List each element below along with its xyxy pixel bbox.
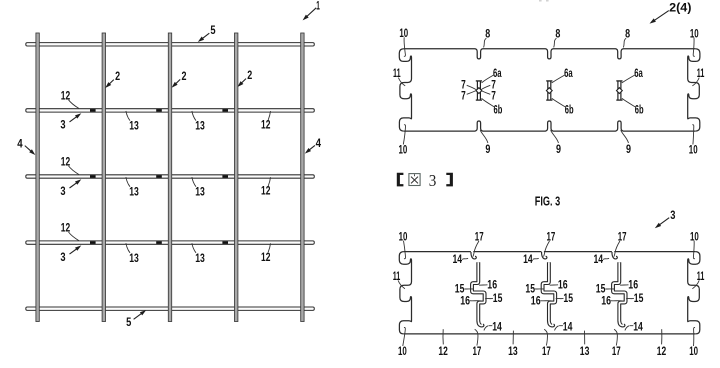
leader 7 ur bbox=[481, 85, 490, 89]
cut feature cap 6a bbox=[476, 80, 482, 82]
leader 16 left bbox=[470, 300, 481, 302]
weld 3 bbox=[222, 109, 228, 112]
svg-text:16: 16 bbox=[628, 280, 638, 292]
leader 8 bbox=[554, 38, 557, 47]
leader 6b bbox=[622, 98, 635, 107]
svg-text:15: 15 bbox=[634, 293, 644, 305]
svg-text:FIG. 3: FIG. 3 bbox=[535, 194, 560, 208]
svg-text:9: 9 bbox=[556, 144, 561, 156]
leader f3 13 a bbox=[512, 331, 514, 345]
leader 14 bottom bbox=[484, 326, 492, 331]
leader 16 right bbox=[479, 284, 487, 286]
svg-text:6a: 6a bbox=[493, 68, 502, 80]
svg-text:3: 3 bbox=[60, 186, 65, 198]
svg-text:4: 4 bbox=[316, 138, 322, 150]
svg-text:13: 13 bbox=[195, 121, 205, 133]
arrow to 5 top bbox=[200, 33, 209, 40]
bar vertical 2-1 bbox=[36, 33, 39, 322]
leader 13 a bbox=[126, 177, 130, 187]
svg-text:6a: 6a bbox=[634, 68, 643, 80]
cut feature slit bbox=[477, 81, 481, 100]
bar vertical 2-3 bbox=[168, 33, 171, 322]
cut feature cap 6b bbox=[546, 99, 552, 101]
JP heading bracket right bbox=[446, 173, 453, 187]
leader f3 10 TL bbox=[404, 241, 406, 259]
cut feature slit bbox=[617, 81, 621, 100]
cut feature slit bbox=[547, 81, 551, 100]
leader 6a bbox=[552, 75, 565, 83]
svg-text:12: 12 bbox=[261, 120, 270, 132]
plate 2 left edge with hooks 10 and notch 11 bbox=[399, 49, 411, 131]
svg-text:15: 15 bbox=[493, 293, 503, 305]
svg-text:11: 11 bbox=[697, 271, 705, 283]
svg-text:12: 12 bbox=[438, 346, 447, 358]
wire horizontal 5-1 bbox=[26, 43, 315, 46]
leader 14 bottom bbox=[555, 326, 563, 331]
weld 3 bbox=[156, 241, 162, 244]
svg-text:15: 15 bbox=[563, 293, 573, 305]
weld 3 bbox=[90, 175, 96, 178]
seam bottom hook 14 bbox=[618, 321, 625, 327]
leader 8 bbox=[623, 38, 626, 47]
leader 16 left bbox=[540, 300, 551, 302]
svg-text:16: 16 bbox=[487, 280, 497, 292]
cut feature cap 6a bbox=[616, 80, 622, 82]
svg-text:3: 3 bbox=[670, 210, 675, 222]
weld 3 bbox=[90, 109, 96, 112]
weld 3 bbox=[156, 109, 162, 112]
leader 13 b bbox=[192, 243, 196, 253]
leader 15 left bbox=[605, 288, 614, 290]
weld 3 bbox=[156, 175, 162, 178]
arrow to 2 bbox=[239, 79, 246, 86]
leader f3 11 right bbox=[692, 280, 699, 288]
svg-text:17: 17 bbox=[612, 346, 621, 358]
leader 15 right bbox=[485, 297, 493, 300]
plate 3 top edge bbox=[404, 251, 695, 253]
plate 3 bottom edge bbox=[404, 333, 695, 335]
leader 12 right bbox=[268, 111, 270, 120]
leader 16 right bbox=[620, 284, 628, 286]
plate 2 right edge with hooks 10 and notch 11 bbox=[688, 49, 700, 131]
svg-text:14: 14 bbox=[563, 321, 573, 333]
leader 14 top bbox=[603, 258, 609, 259]
svg-text:14: 14 bbox=[453, 254, 463, 266]
svg-text:2(4): 2(4) bbox=[669, 2, 692, 14]
svg-text:3: 3 bbox=[429, 171, 437, 190]
plate 3 left edge with hooks 10 and notch 11 bbox=[399, 252, 411, 334]
svg-text:15: 15 bbox=[596, 283, 606, 295]
svg-text:11: 11 bbox=[393, 271, 401, 283]
leader 16 right bbox=[550, 284, 558, 286]
svg-text:15: 15 bbox=[525, 283, 535, 295]
cut feature cap 6b bbox=[476, 99, 482, 101]
leader 17 bottom bbox=[544, 329, 547, 345]
svg-text:17: 17 bbox=[542, 346, 551, 358]
svg-text:11: 11 bbox=[697, 68, 705, 80]
svg-text:14: 14 bbox=[633, 321, 643, 333]
leader 6a bbox=[482, 75, 494, 83]
svg-text:13: 13 bbox=[129, 121, 139, 133]
svg-text:13: 13 bbox=[508, 346, 518, 358]
arrow to 5 bottom bbox=[134, 312, 144, 320]
svg-text:17: 17 bbox=[618, 231, 627, 243]
cut feature diamond opening bbox=[617, 88, 623, 94]
svg-text:10: 10 bbox=[398, 346, 407, 358]
leader 10 BR bbox=[692, 125, 694, 145]
leader 13 b bbox=[192, 111, 196, 121]
wire horizontal 5-4 bbox=[26, 241, 315, 244]
leader 9 bbox=[551, 130, 559, 143]
seam top hook 17 bbox=[542, 252, 547, 259]
svg-text:13: 13 bbox=[580, 346, 590, 358]
wire horizontal 5-2 bbox=[26, 109, 315, 112]
cut-off heading remnant bbox=[539, 0, 542, 2]
svg-text:9: 9 bbox=[485, 144, 490, 156]
svg-text:6b: 6b bbox=[565, 105, 574, 117]
arrow to 3 bbox=[70, 247, 80, 254]
svg-text:3: 3 bbox=[60, 252, 65, 264]
leader 7 lr bbox=[481, 91, 490, 95]
svg-text:7: 7 bbox=[491, 90, 496, 102]
leader 10 TR bbox=[693, 38, 695, 57]
JP heading bracket left bbox=[397, 173, 404, 187]
arrow to 2 bbox=[107, 80, 114, 87]
leader 17 bottom bbox=[614, 329, 617, 345]
svg-text:10: 10 bbox=[689, 346, 698, 358]
leader 14 top bbox=[533, 258, 539, 259]
leader 15 left bbox=[464, 288, 473, 290]
leader 17 top bbox=[544, 241, 550, 257]
svg-text:4: 4 bbox=[17, 139, 23, 151]
arrow to 2 bbox=[173, 79, 180, 86]
leader 14 bottom bbox=[625, 326, 633, 331]
plate 3 right edge with hooks 10 and notch 11 bbox=[688, 252, 700, 334]
arrow to 2(4) bbox=[653, 11, 669, 22]
leader 11 right bbox=[692, 78, 699, 86]
cut feature diamond opening bbox=[476, 88, 482, 94]
svg-text:16: 16 bbox=[558, 280, 568, 292]
svg-text:13: 13 bbox=[129, 187, 139, 199]
svg-text:5: 5 bbox=[126, 317, 132, 329]
leader f3 12 BL bbox=[442, 329, 444, 344]
arrow to 3 bbox=[657, 218, 669, 227]
svg-text:6b: 6b bbox=[635, 105, 644, 117]
svg-text:14: 14 bbox=[523, 254, 533, 266]
svg-text:13: 13 bbox=[129, 253, 139, 265]
svg-text:10: 10 bbox=[399, 231, 408, 243]
svg-text:3: 3 bbox=[60, 120, 65, 132]
leader 11 left bbox=[398, 78, 405, 86]
svg-text:14: 14 bbox=[492, 321, 502, 333]
leader 7 ul bbox=[467, 85, 477, 89]
seam bottom hook 14 bbox=[548, 321, 555, 327]
leader 10 TL bbox=[404, 37, 406, 56]
leader 15 right bbox=[556, 297, 564, 300]
seam top hook 17 bbox=[612, 252, 617, 259]
leader 7 ll bbox=[467, 91, 477, 95]
arrow to 4 right bbox=[307, 145, 315, 152]
leader 17 top bbox=[614, 241, 620, 257]
arrow to 3 bbox=[70, 181, 80, 188]
svg-text:1: 1 bbox=[316, 0, 320, 12]
JP heading kanji ZU (figure) bbox=[409, 174, 420, 186]
svg-text:6a: 6a bbox=[564, 68, 573, 80]
svg-text:9: 9 bbox=[626, 144, 631, 156]
bar vertical 2-5 bbox=[301, 33, 304, 322]
weld 3 bbox=[222, 175, 228, 178]
svg-text:11: 11 bbox=[393, 68, 401, 80]
leader 10 BL bbox=[403, 125, 405, 145]
weld 3 bbox=[222, 241, 228, 244]
cut feature cap 6a bbox=[546, 80, 552, 82]
leader f3 12 BR bbox=[661, 329, 663, 344]
leader 13 a bbox=[126, 111, 130, 121]
seam joint double line 14-15-16 bbox=[613, 262, 626, 321]
seam joint double line 14-15-16 bbox=[472, 262, 485, 321]
svg-text:17: 17 bbox=[547, 231, 556, 243]
wire horizontal 5-5 bbox=[26, 307, 315, 310]
leader f3 13 b bbox=[584, 331, 586, 345]
seam joint double line 14-15-16 bbox=[543, 262, 556, 321]
svg-text:7: 7 bbox=[461, 90, 466, 102]
plate 2 bottom edge with notches 9 bbox=[404, 121, 695, 131]
seam top hook 17 bbox=[471, 252, 476, 259]
svg-text:14: 14 bbox=[594, 254, 604, 266]
svg-text:13: 13 bbox=[195, 253, 205, 265]
leader 15 right bbox=[626, 297, 634, 300]
svg-text:12: 12 bbox=[261, 252, 270, 264]
svg-text:12: 12 bbox=[657, 346, 666, 358]
leader 13 b bbox=[192, 177, 196, 187]
leader 6b bbox=[482, 98, 495, 106]
svg-text:10: 10 bbox=[689, 144, 698, 156]
svg-text:5: 5 bbox=[210, 25, 216, 37]
arrow to 1 bbox=[305, 8, 316, 18]
svg-text:12: 12 bbox=[261, 186, 270, 198]
svg-text:10: 10 bbox=[399, 144, 408, 156]
leader 8 bbox=[484, 38, 487, 47]
leader 17 top bbox=[473, 241, 479, 257]
leader 9 bbox=[621, 130, 629, 143]
leader f3 10 TR bbox=[693, 241, 695, 259]
svg-text:17: 17 bbox=[475, 231, 484, 243]
leader 12 left bbox=[69, 232, 80, 241]
bar vertical 2-4 bbox=[235, 33, 238, 322]
svg-text:6b: 6b bbox=[494, 104, 503, 116]
svg-text:13: 13 bbox=[195, 187, 205, 199]
seam bottom hook 14 bbox=[477, 321, 484, 327]
leader 14 top bbox=[462, 258, 468, 259]
leader 9 bbox=[480, 130, 488, 143]
leader 17 bottom bbox=[475, 329, 478, 345]
svg-text:2: 2 bbox=[247, 70, 252, 82]
plate 2 top edge with notches 8 bbox=[404, 49, 695, 59]
leader 12 left bbox=[69, 100, 80, 109]
leader 12 left bbox=[69, 166, 80, 175]
weld 3 bbox=[90, 241, 96, 244]
leader 12 right bbox=[268, 243, 270, 252]
arrow to 4 left bbox=[25, 146, 34, 154]
leader f3 11 left bbox=[398, 280, 405, 288]
wire horizontal 5-3 bbox=[26, 175, 315, 178]
leader 13 a bbox=[126, 243, 130, 253]
leader 6b bbox=[552, 98, 566, 107]
leader f3 10 BL bbox=[403, 327, 406, 346]
svg-text:16: 16 bbox=[460, 296, 470, 308]
leader 15 left bbox=[535, 288, 544, 290]
svg-text:2: 2 bbox=[182, 71, 187, 83]
svg-text:2: 2 bbox=[115, 71, 120, 83]
svg-text:17: 17 bbox=[473, 346, 482, 358]
leader 12 right bbox=[268, 177, 270, 186]
arrow to 3 bbox=[70, 115, 80, 122]
bar vertical 2-2 bbox=[102, 33, 105, 322]
leader 6a bbox=[622, 75, 635, 83]
svg-text:16: 16 bbox=[601, 296, 611, 308]
leader 16 left bbox=[611, 300, 622, 302]
cut feature cap 6b bbox=[616, 99, 622, 101]
svg-text:15: 15 bbox=[455, 283, 465, 295]
cut feature diamond opening bbox=[546, 88, 552, 94]
leader f3 10 BR bbox=[694, 327, 696, 346]
svg-text:16: 16 bbox=[531, 296, 541, 308]
